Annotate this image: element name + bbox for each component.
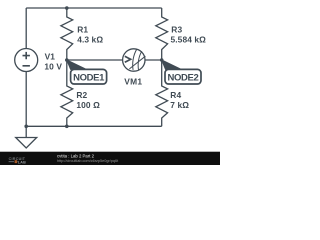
svg-text:7 kΩ: 7 kΩ [170, 100, 189, 110]
svg-text:100 Ω: 100 Ω [76, 100, 100, 110]
svg-text:R1: R1 [77, 25, 88, 35]
svg-text:LAB: LAB [18, 160, 26, 164]
svg-text:NODE1: NODE1 [73, 72, 105, 83]
svg-text:VM1: VM1 [124, 76, 142, 86]
svg-text:10 V: 10 V [44, 62, 62, 72]
svg-text:5.584 kΩ: 5.584 kΩ [171, 35, 207, 45]
svg-text:R3: R3 [171, 25, 182, 35]
svg-text:NODE2: NODE2 [168, 72, 199, 83]
svg-text:http://circuitlab.com/c6rzp5e0: http://circuitlab.com/c6rzp5e0gr/pq6t [57, 159, 119, 163]
svg-text:V1: V1 [45, 52, 56, 62]
svg-text:4.3 kΩ: 4.3 kΩ [77, 35, 103, 45]
svg-text:R2: R2 [76, 90, 87, 100]
svg-text:R4: R4 [170, 90, 181, 100]
